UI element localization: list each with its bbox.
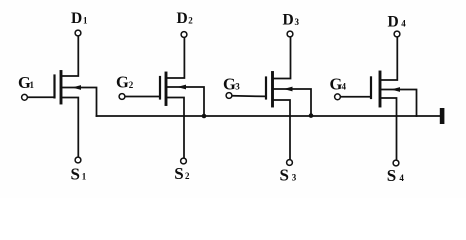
label G2	[116, 73, 134, 92]
body arrow Q1	[72, 85, 81, 90]
label D2	[177, 10, 194, 27]
source terminal S1	[75, 157, 81, 163]
body arrow Q3	[284, 87, 293, 92]
svg-text:D: D	[283, 12, 294, 29]
gate bar Q2	[159, 77, 161, 99]
label G1	[18, 73, 35, 92]
bulk terminal bar	[440, 108, 445, 124]
gate terminal G4	[335, 94, 341, 100]
label G4	[330, 74, 347, 93]
body lead Q1	[61, 88, 97, 117]
source terminal S4	[393, 160, 399, 166]
svg-text:4: 4	[401, 19, 406, 29]
svg-text:1: 1	[83, 16, 88, 26]
channel bar Q3	[271, 73, 274, 107]
drain terminal D4	[394, 31, 400, 37]
common bulk rail	[97, 115, 440, 117]
body lead Q2	[166, 87, 204, 116]
gate wire Q3	[232, 95, 265, 98]
label D4	[388, 13, 407, 30]
transistor Q3	[226, 31, 311, 165]
gate bar Q4	[370, 77, 372, 98]
drain terminal D2	[181, 32, 187, 38]
drain lead Q2	[166, 38, 184, 78]
drain lead Q4	[380, 38, 397, 81]
svg-text:1: 1	[82, 171, 87, 181]
gate terminal G2	[119, 94, 125, 100]
svg-text:G: G	[116, 73, 129, 92]
junction dot node B3	[309, 113, 314, 118]
label D3	[283, 12, 300, 29]
svg-text:4: 4	[342, 81, 347, 91]
body arrow Q2	[177, 85, 186, 90]
label D1	[71, 10, 88, 27]
gate wire Q2	[125, 96, 159, 98]
label G3	[223, 74, 240, 93]
drain lead Q3	[273, 38, 291, 79]
source terminal S3	[287, 160, 293, 166]
svg-text:1: 1	[30, 80, 35, 90]
label S3	[280, 165, 297, 184]
gate terminal G3	[226, 93, 232, 99]
svg-text:3: 3	[235, 82, 240, 92]
svg-text:3: 3	[295, 17, 300, 27]
channel bar Q2	[165, 73, 168, 105]
transistor Q1	[22, 30, 97, 163]
source lead Q3	[273, 100, 291, 159]
transistor Q4	[335, 31, 417, 166]
body arrow Q4	[391, 87, 400, 92]
gate wire Q1	[28, 96, 54, 98]
svg-text:D: D	[71, 10, 82, 27]
channel bar Q4	[379, 72, 382, 106]
label S2	[174, 164, 190, 183]
body lead Q4	[380, 90, 417, 117]
svg-text:G: G	[223, 74, 236, 93]
drain lead Q1	[61, 37, 78, 77]
gate wire Q4	[341, 96, 370, 98]
svg-text:2: 2	[129, 80, 134, 90]
transistor Q2	[119, 32, 204, 164]
drain terminal D3	[287, 31, 293, 37]
gate bar Q1	[53, 76, 55, 98]
label S4	[387, 166, 405, 185]
gate bar Q3	[265, 78, 267, 99]
channel bar Q1	[60, 72, 63, 104]
svg-text:S: S	[71, 164, 80, 183]
gate terminal G1	[22, 94, 28, 100]
svg-text:S: S	[174, 164, 183, 183]
source terminal S2	[181, 158, 187, 164]
svg-text:4: 4	[399, 173, 404, 183]
svg-text:2: 2	[185, 171, 190, 181]
body lead Q3	[273, 89, 312, 116]
junction dot node B2	[202, 114, 207, 119]
svg-text:S: S	[387, 166, 396, 185]
source lead Q4	[380, 98, 397, 160]
svg-text:2: 2	[188, 16, 193, 26]
source lead Q1	[61, 98, 78, 157]
svg-text:D: D	[388, 13, 399, 30]
svg-text:D: D	[177, 10, 188, 27]
svg-text:S: S	[280, 165, 289, 184]
drain terminal D1	[75, 30, 81, 36]
svg-text:3: 3	[292, 172, 297, 182]
label S1	[71, 164, 87, 183]
source lead Q2	[166, 98, 184, 158]
